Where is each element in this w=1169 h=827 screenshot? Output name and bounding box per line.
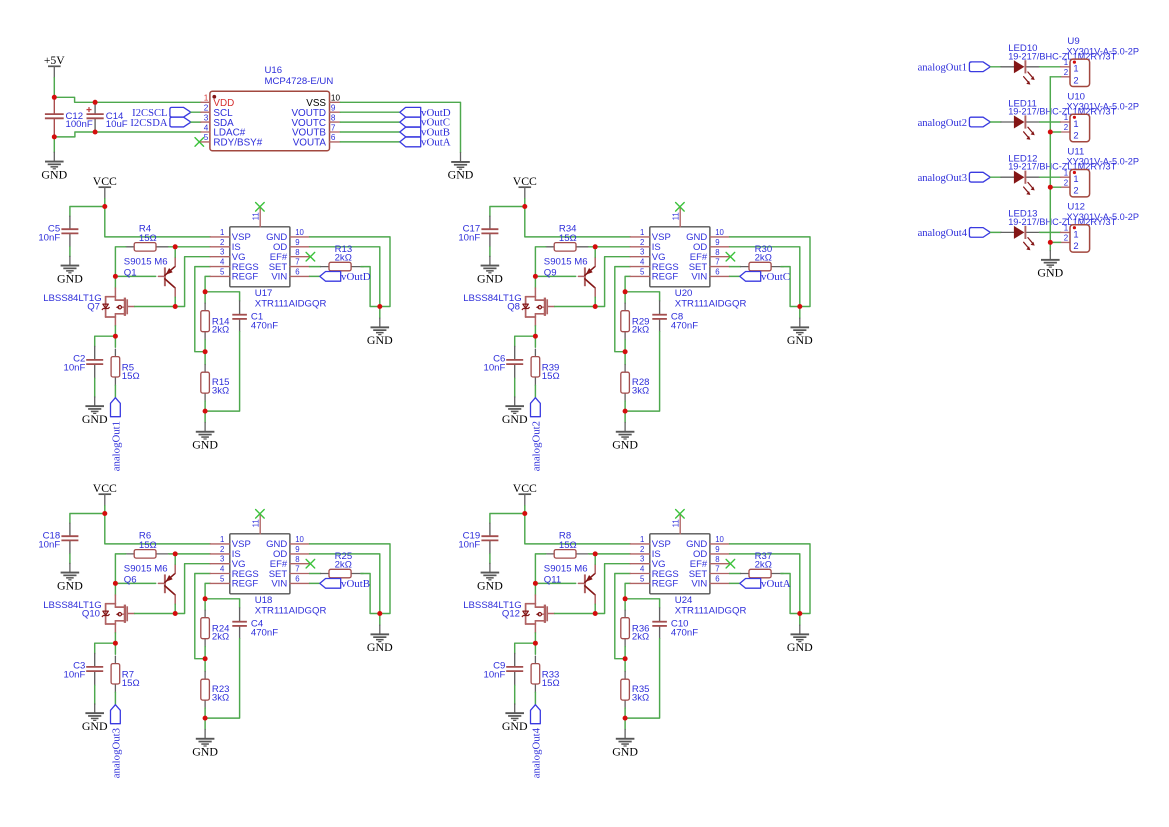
connector U10 XY301V-A-5.0-2P xyxy=(1061,91,1139,141)
capacitor C4 470nF xyxy=(232,608,278,639)
svg-text:GND: GND xyxy=(192,438,218,452)
svg-text:3: 3 xyxy=(220,248,224,257)
wire Q12 source to output node xyxy=(534,633,536,643)
wire U11 pin 2 to ground bus xyxy=(1050,186,1060,188)
wire node to C8 xyxy=(625,292,660,301)
svg-text:6: 6 xyxy=(295,268,299,277)
wire VCC to VSP pin 1 xyxy=(105,207,210,237)
svg-text:3kΩ: 3kΩ xyxy=(212,386,229,397)
svg-text:Q1: Q1 xyxy=(124,268,137,279)
LED LED11 19-217/BHC-ZL1M2RY/3T xyxy=(1001,98,1117,140)
wire LED13 to U12 pin 1 xyxy=(1040,231,1061,233)
wire node to C2 xyxy=(95,336,116,346)
svg-text:VCC: VCC xyxy=(513,482,537,495)
wire C8 to ground node xyxy=(625,332,660,412)
wire xyxy=(204,340,206,352)
net label vOutB xyxy=(320,578,370,590)
svg-text:S9015 M6: S9015 M6 xyxy=(544,564,588,575)
svg-text:2: 2 xyxy=(204,104,209,113)
svg-text:2: 2 xyxy=(640,545,644,554)
wire LED12 to U11 pin 1 xyxy=(1040,176,1061,178)
svg-text:5: 5 xyxy=(220,267,225,276)
svg-text:4: 4 xyxy=(220,564,225,573)
wire GND pin 10 to ground xyxy=(310,237,391,307)
wire OD pin 9 to ground xyxy=(730,247,800,307)
wire xyxy=(624,708,626,718)
junction xyxy=(377,304,382,309)
junction xyxy=(173,304,178,309)
wire node to C1 xyxy=(205,292,240,301)
svg-text:3kΩ: 3kΩ xyxy=(212,693,229,704)
svg-text:2: 2 xyxy=(1064,123,1068,132)
svg-text:2: 2 xyxy=(1073,240,1078,251)
capacitor C9 10nF xyxy=(484,653,524,685)
wire xyxy=(624,292,626,303)
no-connect xyxy=(256,510,265,519)
svg-text:Q6: Q6 xyxy=(124,575,137,586)
wire REGF pin 5 xyxy=(625,583,630,598)
svg-text:GND: GND xyxy=(82,412,108,426)
net label analogOut2 xyxy=(918,117,991,129)
svg-text:analogOut1: analogOut1 xyxy=(918,63,967,74)
no-connect xyxy=(256,203,265,212)
svg-text:analogOut3: analogOut3 xyxy=(110,728,122,778)
svg-text:GND: GND xyxy=(82,719,108,733)
junction xyxy=(102,204,107,209)
svg-text:1: 1 xyxy=(1064,58,1068,67)
svg-text:GND: GND xyxy=(612,438,638,452)
svg-text:VIN: VIN xyxy=(271,272,287,283)
svg-text:1: 1 xyxy=(640,535,644,544)
ground xyxy=(448,153,474,182)
capacitor C2 10nF xyxy=(64,346,104,378)
svg-text:2: 2 xyxy=(1073,185,1078,196)
svg-text:10nF: 10nF xyxy=(458,233,480,244)
transistor Q8 LBSS84LT1G xyxy=(463,288,554,326)
no-connect xyxy=(676,203,685,212)
wire to ground xyxy=(514,685,516,704)
wire xyxy=(204,659,206,672)
svg-text:15Ω: 15Ω xyxy=(139,540,157,551)
svg-text:3: 3 xyxy=(640,555,644,564)
wire xyxy=(624,659,626,672)
svg-text:2kΩ: 2kΩ xyxy=(755,252,772,263)
transistor Q1 S9015 xyxy=(124,257,175,298)
svg-text:11: 11 xyxy=(251,519,260,527)
LED LED10 19-217/BHC-ZL1M2RY/3T xyxy=(1001,43,1117,85)
svg-text:5: 5 xyxy=(640,574,645,583)
wire VIN pin 6 to label xyxy=(730,582,740,584)
svg-text:10nF: 10nF xyxy=(38,540,60,551)
transistor Q7 LBSS84LT1G xyxy=(43,288,134,326)
LED LED13 19-217/BHC-ZL1M2RY/3T xyxy=(1001,209,1117,251)
wire to ground xyxy=(489,247,491,257)
svg-text:VIN: VIN xyxy=(691,579,707,590)
wire node to C6 xyxy=(515,336,536,346)
ground xyxy=(367,625,393,654)
IC U16 MCP4728-E/UN xyxy=(201,65,341,151)
svg-text:REGF: REGF xyxy=(652,272,679,283)
wire xyxy=(624,352,626,365)
svg-text:Q7: Q7 xyxy=(87,301,100,312)
wire ground to LDAC# pin 4 xyxy=(54,132,201,137)
junction xyxy=(173,551,178,556)
resistor R30 2kΩ xyxy=(741,244,784,271)
net label I2CSDA xyxy=(130,117,190,129)
ground xyxy=(82,397,108,426)
wire REGF pin 5 xyxy=(205,276,210,291)
wire OD pin 9 to ground xyxy=(310,554,380,614)
svg-text:GND: GND xyxy=(787,333,813,347)
resistor R4 15Ω xyxy=(126,224,169,251)
svg-text:10: 10 xyxy=(715,228,724,237)
svg-text:15Ω: 15Ω xyxy=(542,678,560,689)
svg-text:8: 8 xyxy=(295,555,299,564)
wire Q9 base xyxy=(535,275,575,277)
svg-text:10: 10 xyxy=(295,228,304,237)
wire LED11 to U10 pin 1 xyxy=(1040,121,1061,123)
svg-text:2: 2 xyxy=(640,238,644,247)
junction xyxy=(623,289,628,294)
wire R30 to ground node xyxy=(781,267,800,307)
svg-text:3: 3 xyxy=(640,248,644,257)
svg-text:470nF: 470nF xyxy=(251,627,278,638)
wire SET pin 7 to R13 xyxy=(310,266,321,268)
wire xyxy=(204,647,206,659)
wire R8 to IS pin 2 xyxy=(589,553,631,555)
svg-text:3kΩ: 3kΩ xyxy=(632,693,649,704)
svg-text:Q8: Q8 xyxy=(507,301,520,312)
wire xyxy=(204,708,206,718)
junction xyxy=(52,95,57,100)
svg-text:4: 4 xyxy=(640,257,645,266)
net label vOutA xyxy=(400,137,451,149)
junction xyxy=(113,581,118,586)
wire U9 pin 2 to ground bus xyxy=(1050,76,1060,78)
svg-text:S9015 M6: S9015 M6 xyxy=(124,564,168,575)
ground xyxy=(612,423,638,452)
svg-text:1: 1 xyxy=(1073,228,1078,239)
resistor R5 15Ω xyxy=(111,349,140,385)
svg-text:2: 2 xyxy=(1064,178,1068,187)
wire to ground xyxy=(799,307,801,319)
power flag VCC xyxy=(513,175,537,199)
svg-text:4: 4 xyxy=(640,564,645,573)
op-amp U20 XTR111AIDGQR xyxy=(630,208,746,310)
svg-text:2kΩ: 2kΩ xyxy=(632,632,649,643)
svg-text:7: 7 xyxy=(331,123,336,132)
wire R4 to Q7 drain xyxy=(115,247,125,288)
svg-text:1: 1 xyxy=(1064,224,1068,233)
svg-text:XY301V-A-5.0-2P: XY301V-A-5.0-2P xyxy=(1067,46,1140,56)
svg-text:2: 2 xyxy=(1064,234,1068,243)
svg-text:analogOut4: analogOut4 xyxy=(530,727,542,778)
wire C1 to ground node xyxy=(205,332,240,412)
junction xyxy=(203,349,208,354)
svg-text:10nF: 10nF xyxy=(64,363,86,374)
svg-text:GND: GND xyxy=(787,640,813,654)
svg-text:2: 2 xyxy=(1073,130,1078,141)
svg-text:15Ω: 15Ω xyxy=(559,540,577,551)
wire to ground xyxy=(94,378,96,397)
wire R6 to Q10 drain xyxy=(115,554,125,595)
svg-text:3: 3 xyxy=(204,113,209,122)
wire OD pin 9 to ground xyxy=(730,554,800,614)
wire Q8 source to output node xyxy=(534,326,536,336)
svg-text:GND: GND xyxy=(367,640,393,654)
op-amp U18 XTR111AIDGQR xyxy=(210,515,326,617)
svg-text:S9015 M6: S9015 M6 xyxy=(124,257,168,268)
junction xyxy=(533,334,538,339)
svg-text:11: 11 xyxy=(671,519,680,527)
net label analogOut4 xyxy=(530,705,542,779)
junction xyxy=(1048,130,1053,135)
svg-text:Q12: Q12 xyxy=(502,608,520,619)
wire to ground xyxy=(204,411,206,422)
junction xyxy=(93,130,98,135)
junction xyxy=(623,656,628,661)
svg-text:VCC: VCC xyxy=(93,175,117,188)
wire pin to vOutC xyxy=(340,121,400,123)
op-amp U17 XTR111AIDGQR xyxy=(210,208,326,310)
net label analogOut4 xyxy=(918,228,991,240)
resistor R33 15Ω xyxy=(531,656,560,692)
ground xyxy=(787,625,813,654)
resistor R14 2kΩ xyxy=(201,303,230,340)
svg-text:3: 3 xyxy=(220,555,224,564)
svg-text:15Ω: 15Ω xyxy=(559,233,577,244)
capacitor C10 470nF xyxy=(652,608,698,639)
wire REGF pin 5 xyxy=(205,583,210,598)
net label analogOut3 xyxy=(110,705,122,779)
svg-text:470nF: 470nF xyxy=(671,627,698,638)
svg-text:1: 1 xyxy=(220,228,224,237)
wire analogOut1 to LED10 xyxy=(990,66,1001,68)
connector U11 XY301V-A-5.0-2P xyxy=(1061,147,1139,197)
resistor R8 15Ω xyxy=(546,531,589,558)
junction xyxy=(203,716,208,721)
wire node to R5 xyxy=(114,336,116,347)
wire pin to vOutB xyxy=(340,131,400,133)
wire xyxy=(524,506,526,514)
svg-text:11: 11 xyxy=(671,212,680,220)
capacitor C18 10nF xyxy=(38,523,78,554)
capacitor C8 470nF xyxy=(652,301,698,332)
wire Q1 base xyxy=(115,275,155,277)
resistor R29 2kΩ xyxy=(621,303,650,340)
svg-text:2kΩ: 2kΩ xyxy=(335,252,352,263)
svg-text:XTR111AIDGQR: XTR111AIDGQR xyxy=(675,299,747,310)
svg-text:10nF: 10nF xyxy=(458,540,480,551)
svg-text:REGF: REGF xyxy=(232,272,259,283)
wire to ground xyxy=(94,685,96,704)
svg-text:100nF: 100nF xyxy=(66,119,93,130)
wire to ground xyxy=(69,247,71,257)
junction xyxy=(173,244,178,249)
svg-text:10: 10 xyxy=(715,535,724,544)
power flag +5V xyxy=(44,54,65,78)
net label analogOut3 xyxy=(918,172,991,184)
resistor R23 3kΩ xyxy=(201,672,230,709)
svg-text:REGF: REGF xyxy=(652,579,679,590)
svg-text:GND: GND xyxy=(57,578,83,592)
power flag VCC xyxy=(513,482,537,506)
wire node to R7 xyxy=(114,643,116,654)
ground xyxy=(477,563,503,592)
svg-text:6: 6 xyxy=(295,575,299,584)
net label I2CSCL xyxy=(132,107,191,119)
svg-text:1: 1 xyxy=(1064,113,1068,122)
svg-text:U16: U16 xyxy=(265,65,283,76)
svg-text:analogOut2: analogOut2 xyxy=(918,118,967,129)
junction xyxy=(173,611,178,616)
wire xyxy=(524,199,526,207)
svg-text:8: 8 xyxy=(715,248,719,257)
wire U12 pin 2 to ground bus xyxy=(1050,241,1060,243)
wire VIN pin 6 to label xyxy=(310,275,320,277)
wire gate to VG pin 3 xyxy=(135,564,211,614)
svg-text:2kΩ: 2kΩ xyxy=(755,559,772,570)
svg-text:VCC: VCC xyxy=(513,175,537,188)
svg-text:GND: GND xyxy=(41,167,67,181)
net label vOutD xyxy=(320,271,371,283)
wire R7 to label xyxy=(114,692,116,705)
junction xyxy=(203,656,208,661)
LED LED12 19-217/BHC-ZL1M2RY/3T xyxy=(1001,154,1117,196)
wire VSS pin 10 to ground xyxy=(340,102,460,152)
net label analogOut1 xyxy=(110,398,122,472)
net label vOutA xyxy=(740,578,791,590)
junction xyxy=(522,511,527,516)
capacitor C14 10uF xyxy=(87,102,128,132)
svg-text:vOutD: vOutD xyxy=(341,271,371,283)
wire U10 pin 2 to ground bus xyxy=(1050,131,1060,133)
svg-text:10nF: 10nF xyxy=(484,363,506,374)
svg-text:10: 10 xyxy=(331,94,341,103)
wire Q9 collector to gate node xyxy=(594,297,596,306)
junction xyxy=(623,716,628,721)
svg-text:VCC: VCC xyxy=(93,482,117,495)
wire xyxy=(624,340,626,352)
wire gate to VG pin 3 xyxy=(135,257,211,307)
resistor R28 3kΩ xyxy=(621,365,650,402)
svg-text:7: 7 xyxy=(715,565,719,574)
resistor R15 3kΩ xyxy=(201,365,230,402)
junction xyxy=(533,274,538,279)
wire Q11 base xyxy=(535,582,575,584)
svg-text:Q10: Q10 xyxy=(82,608,100,619)
wire +5V to VDD pin 1 xyxy=(54,97,201,102)
svg-text:VIN: VIN xyxy=(691,272,707,283)
svg-text:1: 1 xyxy=(1073,63,1078,74)
svg-text:GND: GND xyxy=(1037,266,1063,280)
junction xyxy=(113,334,118,339)
wire node to C5 xyxy=(70,207,105,217)
svg-text:analogOut2: analogOut2 xyxy=(530,421,542,471)
wire to ground xyxy=(204,718,206,729)
svg-text:GND: GND xyxy=(367,333,393,347)
junction xyxy=(113,641,118,646)
wire node to C4 xyxy=(205,599,240,608)
svg-text:XY301V-A-5.0-2P: XY301V-A-5.0-2P xyxy=(1067,212,1140,222)
ground xyxy=(57,256,83,285)
capacitor C6 10nF xyxy=(484,346,524,378)
ground xyxy=(787,318,813,347)
svg-text:GND: GND xyxy=(192,745,218,759)
svg-text:8: 8 xyxy=(331,113,336,122)
svg-text:2: 2 xyxy=(220,238,224,247)
svg-text:vOutB: vOutB xyxy=(341,578,370,590)
svg-text:10nF: 10nF xyxy=(38,233,60,244)
wire to ground xyxy=(379,614,381,626)
svg-text:analogOut1: analogOut1 xyxy=(110,421,122,471)
svg-text:2kΩ: 2kΩ xyxy=(212,325,229,336)
wire Q6 base xyxy=(115,582,155,584)
no-connect xyxy=(306,559,315,568)
svg-text:10: 10 xyxy=(295,535,304,544)
wire xyxy=(204,401,206,411)
svg-text:15Ω: 15Ω xyxy=(122,371,140,382)
power flag VCC xyxy=(93,482,117,506)
resistor R34 15Ω xyxy=(546,224,589,251)
wire VCC to VSP pin 1 xyxy=(525,514,630,544)
capacitor C19 10nF xyxy=(458,523,498,554)
ground xyxy=(82,704,108,733)
svg-text:2: 2 xyxy=(1073,74,1078,85)
capacitor C1 470nF xyxy=(232,301,278,332)
svg-text:15Ω: 15Ω xyxy=(542,371,560,382)
wire LED10 to U9 pin 1 xyxy=(1040,66,1061,68)
wire GND pin 10 to ground xyxy=(730,237,811,307)
junction xyxy=(797,304,802,309)
svg-text:4: 4 xyxy=(220,257,225,266)
svg-text:GND: GND xyxy=(502,719,528,733)
ground xyxy=(477,256,503,285)
wire Q6 emitter to IS node xyxy=(174,554,176,564)
resistor R7 15Ω xyxy=(111,656,140,692)
junction xyxy=(623,596,628,601)
transistor Q12 LBSS84LT1G xyxy=(463,595,554,633)
svg-text:1: 1 xyxy=(204,94,209,103)
no-connect xyxy=(726,559,735,568)
wire R5 to label xyxy=(114,385,116,398)
svg-text:Q11: Q11 xyxy=(544,575,561,586)
junction xyxy=(203,596,208,601)
no-connect xyxy=(676,510,685,519)
svg-text:10uF: 10uF xyxy=(106,119,128,130)
power flag VCC xyxy=(93,175,117,199)
svg-text:XTR111AIDGQR: XTR111AIDGQR xyxy=(255,606,327,617)
svg-text:6: 6 xyxy=(715,268,719,277)
wire xyxy=(624,599,626,610)
svg-text:9: 9 xyxy=(295,545,299,554)
connector U9 XY301V-A-5.0-2P xyxy=(1061,36,1139,86)
svg-text:9: 9 xyxy=(715,238,719,247)
resistor R36 2kΩ xyxy=(621,610,650,647)
wire analogOut4 to LED13 xyxy=(990,231,1001,233)
svg-text:XY301V-A-5.0-2P: XY301V-A-5.0-2P xyxy=(1067,157,1140,167)
resistor R24 2kΩ xyxy=(201,610,230,647)
wire VCC to VSP pin 1 xyxy=(525,207,630,237)
capacitor C5 10nF xyxy=(38,216,78,247)
svg-text:XTR111AIDGQR: XTR111AIDGQR xyxy=(255,299,327,310)
net label analogOut2 xyxy=(530,398,542,472)
capacitor C3 10nF xyxy=(64,653,104,685)
wire node to C3 xyxy=(95,643,116,653)
junction xyxy=(522,204,527,209)
svg-text:7: 7 xyxy=(715,258,719,267)
wire Q11 collector to gate node xyxy=(594,604,596,613)
